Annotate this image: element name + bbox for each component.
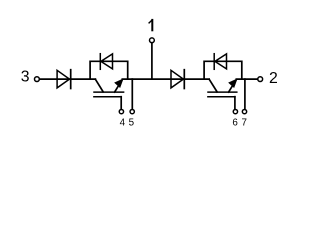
wire gate lead to terminal 6	[234, 97, 236, 110]
diode D4 cathode bar	[213, 54, 215, 70]
diode D1 cathode bar	[99, 54, 101, 70]
wire aux emitter lead to terminal 7	[244, 79, 246, 109]
svg-text:6: 6	[232, 118, 238, 129]
terminal 4	[119, 109, 123, 113]
diode D2 cathode bar	[183, 70, 185, 89]
svg-text:2: 2	[269, 70, 278, 87]
wire terminal 1 lead	[151, 43, 153, 79]
diode D2 triangle	[171, 70, 183, 88]
transistor IGBT1 emitter arrowhead	[115, 79, 123, 88]
transistor IGBT2 emitter arrowhead	[229, 79, 237, 88]
wire terminal3 to IGBT1 collector	[40, 78, 96, 80]
diode D3 cathode bar	[70, 70, 72, 89]
transistor IGBT1 body bar	[94, 91, 124, 93]
wire IGBT1 emitter to IGBT2 collector	[122, 78, 209, 80]
diode D1 triangle	[101, 54, 113, 69]
svg-text:3: 3	[21, 69, 30, 86]
wire aux emitter lead to terminal 5	[131, 79, 133, 109]
terminal 7	[242, 109, 246, 113]
diode D4 triangle	[215, 54, 227, 69]
transistor IGBT2 emitter diagonal	[229, 80, 236, 92]
terminal 3	[35, 77, 40, 82]
diode D3 triangle	[57, 70, 69, 88]
wire anti-parallel diode loop IGBT1	[90, 61, 128, 79]
terminal 2	[258, 77, 263, 82]
wire anti-parallel diode loop IGBT2	[204, 61, 242, 79]
transistor IGBT2 body bar	[208, 91, 237, 93]
svg-text:4: 4	[120, 118, 126, 129]
node label 1	[151, 20, 153, 30]
svg-text:5: 5	[129, 118, 135, 129]
terminal 5	[130, 109, 134, 113]
transistor IGBT1 gate bar	[94, 96, 121, 98]
wire IGBT2 emitter to terminal 2	[236, 78, 257, 80]
transistor IGBT1 emitter diagonal	[115, 80, 122, 92]
transistor IGBT2 collector diagonal	[209, 79, 217, 92]
terminal 1	[150, 38, 155, 43]
transistor IGBT1 collector diagonal	[95, 79, 103, 92]
transistor IGBT2 gate bar	[208, 96, 235, 98]
svg-text:7: 7	[241, 118, 246, 129]
terminal 6	[233, 109, 237, 113]
wire gate lead to terminal 4	[120, 97, 122, 110]
